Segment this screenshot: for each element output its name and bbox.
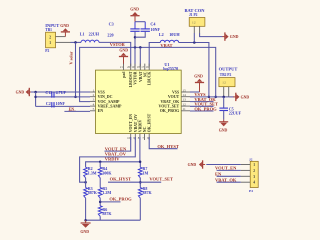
pin stubs U1 right with numbers 15-11 [181,88,190,111]
ground GND (J2) [188,160,206,168]
svg-text:1: 1 [253,163,255,167]
pin stubs U1 bottom [127,134,149,141]
svg-text:NC: NC [143,71,147,77]
node Vsolar junction [74,41,77,44]
wire J1 pin2 to GND [200,33,223,37]
capacitor C2 [46,101,66,107]
svg-text:18: 18 [137,65,141,69]
node OK_PROG tap junction [99,201,102,204]
svg-text:OK_HYST: OK_HYST [148,113,152,132]
wire VOUT_SET pin12 [190,105,214,107]
svg-text:17: 17 [141,65,145,69]
svg-text:887K: 887K [102,211,112,216]
node C3/C4 bottom junction [134,36,137,39]
svg-text:C3: C3 [109,21,114,26]
svg-text:C2: C2 [46,101,51,106]
svg-text:GND: GND [188,163,197,167]
wire R8 bottom to GND rail [139,198,141,220]
pin 2 stub of TB1 [56,36,66,38]
svg-text:OK_HYST: OK_HYST [110,177,132,182]
node VSTOR-C3 junction [134,46,137,49]
resistor R8 [138,186,152,198]
svg-text:VSTOR: VSTOR [134,71,138,84]
wire VIN_DC rail (pin2) [36,96,90,98]
wire VSS pin15 to GND [190,91,200,93]
svg-text:4: 4 [93,102,95,106]
svg-text:1M: 1M [143,171,149,176]
svg-text:J1 P2: J1 P2 [189,13,198,17]
node rail-R7 junction [139,161,142,164]
resistor R2 [84,166,97,178]
svg-text:GND: GND [16,91,25,95]
svg-text:GND: GND [230,35,239,39]
svg-text:1.2M: 1.2M [102,190,111,195]
svg-text:220: 220 [107,33,113,38]
wire VBAT_OV route to R2/R3 tap [80,137,136,182]
svg-text:C4: C4 [150,21,155,26]
svg-text:300K: 300K [102,171,112,176]
svg-text:P2: P2 [45,49,49,53]
wire R4-R5 tap [99,178,101,188]
resistor R4 [98,166,112,178]
pin names U1 bottom side [129,113,152,132]
ground GND (above VSS pin15) [194,75,204,93]
svg-text:pad: pad [122,71,126,78]
svg-text:3: 3 [93,98,95,102]
svg-text:1.3M: 1.3M [88,171,97,176]
ground GND (pad pin) [119,49,128,65]
node VIN_DC junction [74,96,77,99]
resistor R6 [98,206,112,217]
pin 2 stub of J1 [199,26,201,33]
ground GND (battery) [222,32,238,40]
svg-text:2: 2 [49,36,51,40]
svg-text:13: 13 [182,98,186,102]
svg-text:TB2 P2: TB2 P2 [220,73,232,77]
wire LBUCK to L2 [149,43,160,67]
wire J2 pin2 VOUT_EN [217,169,241,171]
pin names U1 left side [98,89,122,113]
resistor R3 [84,186,98,198]
wire Vsolar horizontal [71,41,82,43]
svg-text:OK_PROG: OK_PROG [194,106,217,111]
svg-text:EN: EN [98,108,104,113]
ground GND (output right) [233,93,249,101]
wire GND tee to C4 [135,21,145,23]
svg-text:2: 2 [93,93,95,97]
svg-text:1: 1 [93,88,95,92]
svg-text:10UH: 10UH [169,32,180,37]
svg-text:887K: 887K [143,190,153,195]
svg-text:12: 12 [182,102,186,106]
wire VREF_SAMP rail (pin4) [36,105,90,107]
svg-text:OUTPUT: OUTPUT [219,66,238,71]
svg-text:2: 2 [253,169,255,173]
connector TB1 (solar input terminal block) [45,23,59,53]
ground GND (below C5) [219,120,229,133]
wire C4 bottom branch [135,31,145,37]
wire VOUT pin14 rail [190,96,229,98]
node rail-R4 junction [99,161,102,164]
svg-text:5: 5 [93,107,95,111]
node VSTOR-VBATpin junction [139,46,142,49]
node OK_HYST/VOUT_SET tap junction [139,181,142,184]
wire TB2 pin2 to GND [229,96,235,98]
svg-text:21: 21 [120,65,124,69]
node GND-VSS junction [34,91,37,94]
svg-text:1: 1 [49,41,51,45]
wire R7-R8 tap [139,178,141,188]
pin names U1 top side [122,71,152,88]
svg-text:VRDIV: VRDIV [138,119,142,132]
svg-text:NC: NC [143,126,147,132]
wire J2 pin1 to GND [206,164,241,166]
wire R2-R3 tap [85,178,87,188]
svg-text:887K: 887K [88,190,98,195]
svg-text:14: 14 [182,93,186,97]
wire L2 to BAT CON and down [179,43,209,97]
capacitor C3 [107,21,139,37]
svg-text:3: 3 [253,175,255,179]
wire rail to R4 top [99,162,101,168]
ground GND (divider bottom) [80,219,90,234]
wire VSTOR rail [80,47,216,101]
svg-text:VBAT: VBAT [139,71,143,82]
connector J1 BAT CON [185,8,206,26]
pin 1 stub of TB2 [223,87,225,97]
svg-text:bq25570: bq25570 [163,66,178,71]
svg-text:20: 20 [127,65,131,69]
resistor R7 [138,166,148,178]
svg-text:LBUCK: LBUCK [148,72,152,86]
wire Vsolar vertical down to VIN_DC [75,42,77,97]
svg-text:V solar: V solar [69,51,74,64]
wire R3 bottom to GND rail [85,198,87,220]
inductor L1 [80,32,100,43]
wire GND bottom rail [86,219,141,221]
wire VOUT_EN stub from U1 [105,137,131,151]
wire J2 pin3 EN [217,175,241,177]
svg-text:OK_PROG: OK_PROG [109,196,132,201]
node BAT CON pin junction [193,41,196,44]
node VBAT to VOUT junction [208,96,211,99]
ground GND (left) [16,88,32,96]
inductor L2 [159,32,180,43]
svg-text:4.7UF: 4.7UF [56,90,67,95]
pin stubs U1 top [120,64,149,71]
wire VBAT_OK pin13 [190,101,214,103]
node VBAT_OV tap junction [84,181,87,184]
pin 2 stub of TB2 [228,87,230,97]
svg-text:4: 4 [253,181,255,185]
svg-text:19: 19 [131,65,135,69]
wire C3 bottom to VSTOR [134,31,136,47]
pin stubs U1 left with numbers 1-5 [90,88,96,111]
node VSTOR to VOUT junction [214,96,217,99]
svg-text:VBAT_OK: VBAT_OK [215,177,237,182]
svg-text:GND: GND [219,129,228,133]
svg-text:OK_PROG: OK_PROG [160,108,179,113]
svg-text:10: 10 [127,136,131,140]
svg-text:VOUT_SET: VOUT_SET [149,177,173,182]
svg-text:11: 11 [182,107,186,111]
wire OK_PROG pin11 [190,110,214,112]
svg-text:VOUT_EN: VOUT_EN [129,114,133,133]
wire L1 to LBOOST [99,42,131,66]
connector J2 P4 header [249,158,258,194]
svg-text:VBAT_OV: VBAT_OV [134,114,138,132]
svg-text:OK_HYST: OK_HYST [157,144,179,149]
svg-text:22UUF: 22UUF [229,111,242,116]
svg-text:16: 16 [146,65,150,69]
capacitor C4 [141,21,161,32]
connector TB2 (output terminal block) [219,66,238,86]
wire VRDIV rail (divider tops) [86,162,141,168]
capacitor C5 [219,97,241,120]
svg-text:P4: P4 [249,189,253,193]
svg-text:EN: EN [69,107,75,111]
pin 1 stub of J1 [193,26,195,33]
wire VSS rail (pin1) [31,91,90,93]
svg-text:GND: GND [60,24,69,28]
node VOUT-TB2 junction [222,96,225,99]
wire VSTOR pin drop [134,47,136,66]
ground GND (above C3 C4) [130,8,139,22]
svg-text:GND: GND [119,49,128,53]
pin 1 stub of TB1 [56,41,71,43]
svg-text:EN: EN [215,172,222,177]
wire VRDIV stub down to rail [139,137,141,162]
svg-text:VOUT_EN: VOUT_EN [215,166,237,171]
svg-text:15: 15 [182,88,186,92]
wire J2 pin4 VBAT_OK [217,181,241,183]
net label EN with wire [64,107,90,111]
wire OK_HYST stub from U1 [149,137,177,149]
svg-text:L2: L2 [159,32,164,37]
wire GND vertical left [35,92,37,106]
svg-text:VBAT: VBAT [160,43,172,48]
wire VBAT pin drop [139,47,141,66]
svg-text:GND: GND [80,230,89,234]
svg-text:GND: GND [130,8,139,12]
svg-text:22UH: 22UH [89,32,100,37]
op-amp U1 bq25570 body [96,62,182,134]
svg-text:L1: L1 [80,32,85,37]
svg-text:VSTOR: VSTOR [110,42,126,47]
wire OK_PROG label stub [100,201,120,203]
capacitor C12 [45,90,66,98]
pin names U1 right side [158,89,180,113]
svg-text:VRDIV: VRDIV [105,157,121,162]
svg-text:10NF: 10NF [56,101,66,106]
wire R5-R6 tap [99,198,101,206]
ground GND (input) [60,24,70,37]
resistor R5 [98,186,111,198]
svg-text:VOUT_EN: VOUT_EN [105,146,127,151]
wire R6 bottom to GND rail [99,216,101,220]
wire OK_HYST / VOUT_SET tap [108,181,161,183]
svg-text:TB1: TB1 [45,28,52,32]
pin stubs of J2 [241,165,250,183]
svg-text:GND: GND [194,75,203,79]
svg-text:GND: GND [241,95,250,99]
node junction on VIN rail [34,96,37,99]
